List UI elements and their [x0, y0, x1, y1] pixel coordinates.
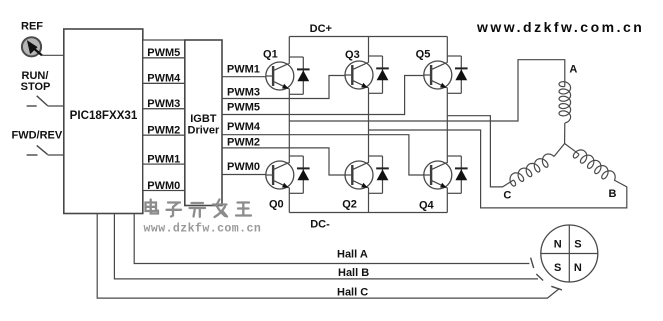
svg-text:Q1: Q1 [263, 48, 278, 60]
diode D0 [289, 156, 309, 193]
wire PWM0 to Q0 base [222, 161, 266, 175]
wire leg3 collector [446, 37, 448, 63]
IGBT driver [185, 40, 222, 206]
winding A [559, 64, 577, 144]
wire phase C [447, 116, 513, 187]
transistor Q5 [416, 49, 452, 90]
pin box PWM2 [143, 109, 185, 137]
wire Hall C [97, 214, 559, 299]
svg-text:PWM5: PWM5 [227, 101, 260, 113]
transistor Q3 [345, 49, 373, 89]
svg-text:www.dzkfw.com.cn: www.dzkfw.com.cn [144, 223, 262, 236]
wire leg3 midpoint [446, 87, 448, 163]
svg-text:N: N [554, 239, 562, 251]
svg-text:Q0: Q0 [269, 199, 284, 211]
winding B [565, 144, 617, 201]
transistor Q1 [263, 48, 294, 90]
wire leg2 collector [368, 37, 370, 63]
wire RUN/STOP to PIC [48, 105, 65, 107]
svg-text:DC+: DC+ [310, 23, 332, 35]
wire leg3 emitter [446, 187, 448, 212]
hall sensor C [551, 286, 562, 290]
svg-text:IGBT: IGBT [190, 113, 217, 125]
svg-text:S: S [574, 239, 581, 251]
svg-text:C: C [503, 190, 511, 202]
switch RUN/STOP [21, 70, 51, 106]
wire PWM2 to Q2 base [222, 136, 346, 175]
svg-text:Hall C: Hall C [337, 286, 368, 298]
pin box PWM3 [143, 83, 185, 110]
wire leg2 emitter [368, 187, 370, 212]
svg-text:FWD/REV: FWD/REV [12, 130, 63, 142]
potentiometer REF [21, 21, 43, 57]
svg-text:PWM2: PWM2 [227, 136, 260, 148]
wire phase A [289, 60, 565, 121]
rotor magnet [541, 225, 598, 282]
svg-text:N: N [574, 262, 582, 274]
pin box PWM4 [143, 58, 185, 85]
pin box PWM5 [143, 40, 185, 59]
wire leg2 midpoint [368, 87, 370, 163]
wire leg1 midpoint [288, 88, 290, 163]
hall sensor A [531, 258, 534, 268]
svg-text:PWM0: PWM0 [227, 161, 260, 173]
svg-text:Hall B: Hall B [338, 267, 369, 279]
wire REF to PIC [41, 54, 64, 56]
svg-text:RUN/: RUN/ [22, 70, 49, 82]
wire Hall B [114, 214, 538, 279]
svg-text:PIC18FXX31: PIC18FXX31 [70, 109, 138, 122]
diode D1 [289, 57, 309, 94]
wire leg1 collector [288, 37, 290, 64]
wire PWM4 to Q4 base [222, 121, 424, 175]
svg-text:PWM0: PWM0 [147, 180, 180, 192]
wire PWM5 to Q5 base [222, 76, 424, 115]
svg-text:A: A [569, 64, 577, 76]
winding C [503, 144, 564, 202]
transistor Q4 [419, 161, 452, 212]
svg-text:Q4: Q4 [419, 200, 435, 212]
diode D4 [447, 156, 467, 193]
svg-text:S: S [554, 262, 561, 274]
DC+ rail [289, 23, 447, 37]
wire PWM1 to Q1 base [222, 64, 266, 77]
svg-text:Q2: Q2 [342, 199, 357, 211]
switch FWD/REV [12, 130, 63, 155]
wire FWD/REV to PIC [48, 154, 65, 156]
svg-text:Q5: Q5 [416, 49, 431, 61]
svg-text:Driver: Driver [188, 125, 221, 137]
microcontroller PIC18FXX31 [64, 29, 143, 214]
svg-text:PWM1: PWM1 [227, 64, 260, 76]
diode D3 [369, 56, 389, 93]
svg-text:DC-: DC- [310, 218, 330, 230]
diode D2 [369, 156, 389, 193]
svg-text:PWM3: PWM3 [227, 86, 260, 98]
hall sensor B [536, 274, 543, 281]
transistor Q0 [266, 161, 294, 211]
wire PWM3 to Q3 base [222, 76, 346, 99]
DC- rail [289, 213, 447, 231]
svg-text:www.dzkfw.com.cn: www.dzkfw.com.cn [476, 19, 644, 35]
svg-text:Hall A: Hall A [337, 249, 368, 261]
wire Hall A [134, 214, 529, 264]
wire phase B [369, 130, 627, 208]
pin box PWM0 [143, 164, 185, 192]
svg-text:Q3: Q3 [345, 49, 360, 61]
diode D5 [447, 56, 467, 93]
svg-text:REF: REF [21, 21, 43, 33]
pin box PWM1 [143, 135, 185, 165]
svg-text:B: B [609, 188, 617, 200]
transistor Q2 [342, 161, 373, 211]
svg-text:PWM4: PWM4 [227, 121, 261, 133]
svg-text:STOP: STOP [21, 81, 51, 93]
wire leg1 emitter [288, 187, 290, 212]
